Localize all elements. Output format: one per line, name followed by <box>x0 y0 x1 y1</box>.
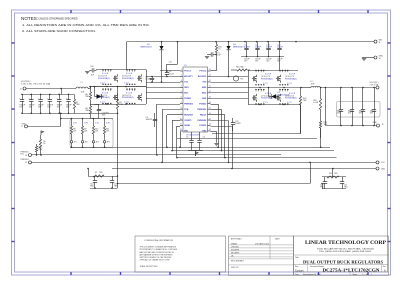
label GND J6 <box>373 122 384 126</box>
svg-text:1: 1 <box>181 69 182 71</box>
junction FAULT join <box>221 150 223 152</box>
wire star stub <box>195 150 197 156</box>
svg-text:J4: J4 <box>20 88 22 90</box>
wire RC2 drop from net <box>310 162 312 183</box>
junction caps top bus <box>58 94 60 96</box>
junction COMP2 join <box>228 162 230 164</box>
svg-text:COMP2: COMP2 <box>199 125 207 127</box>
svg-text:UNLESS OTHERWISE SPECIFIED: UNLESS OTHERWISE SPECIFIED <box>39 17 78 20</box>
wire BG1 <box>146 92 180 94</box>
wire RC1 top node <box>88 176 118 178</box>
capacitor C20 TBD <box>320 177 327 189</box>
junction on VIN bus <box>279 41 281 43</box>
jumper JP4 <box>103 139 109 144</box>
junction right mid <box>259 87 261 89</box>
wire net SGND rail y147 <box>70 147 330 149</box>
capacitor C6 1000PF <box>146 113 158 127</box>
svg-text:7: 7 <box>181 102 182 104</box>
label C2 value below <box>255 59 261 63</box>
wire long x117 drop <box>117 113 119 188</box>
junction R2 bottom <box>117 113 119 115</box>
jumper JP1 <box>70 139 76 144</box>
svg-text:JP4: JP4 <box>107 142 110 144</box>
junction caps lower bus <box>58 113 60 115</box>
junction Q mid 2 <box>106 86 108 88</box>
svg-text:C3: C3 <box>186 137 188 139</box>
svg-text:Rev: Rev <box>383 266 386 268</box>
confidential information box <box>135 236 226 272</box>
svg-text:12: 12 <box>180 129 182 131</box>
junction output caps bottom <box>362 125 364 127</box>
resistor R7 TBD snubber <box>93 172 104 177</box>
junction on VIN bus <box>267 41 269 43</box>
junction Q bot 2 <box>106 103 108 105</box>
resistor R11 10K VID <box>103 119 110 140</box>
transistor Q1 FDS6670A <box>98 69 118 85</box>
junction caps lower bus <box>31 113 33 115</box>
wire R18 drop <box>300 105 302 134</box>
wire R15 chain drop <box>320 128 322 147</box>
label GND J3 <box>379 56 384 61</box>
ground symbol near J3 <box>362 59 366 61</box>
junction on caps lower bus <box>246 56 248 58</box>
capacitor C11 100PF <box>231 118 242 131</box>
resistor R4 TBD <box>85 104 91 119</box>
capacitor C31 180UF output2 <box>348 88 355 126</box>
op-amp U1 LTC1702CGN body <box>183 65 208 137</box>
junction VID bottom <box>82 147 84 149</box>
svg-text:1: 1 <box>371 274 372 276</box>
wire BG2 <box>211 92 249 94</box>
capacitor C15 TBD <box>110 176 118 188</box>
wire FB2 drop <box>232 126 234 169</box>
wire Q mid bus <box>90 86 146 88</box>
svg-text:16: 16 <box>209 113 211 115</box>
svg-text:DUAL OUTPUT BUCK REGULATORS: DUAL OUTPUT BUCK REGULATORS <box>303 259 383 264</box>
label VIN J1 <box>379 40 383 45</box>
wire FB2 pin lead <box>211 126 233 128</box>
svg-text:LINEAR TECHNOLOGY CORP: LINEAR TECHNOLOGY CORP <box>305 240 387 246</box>
junction Q mid <box>125 86 127 88</box>
resistor R20 TBD <box>35 144 42 155</box>
svg-text:PVCC1: PVCC1 <box>184 71 192 73</box>
junction caps top bus <box>40 94 42 96</box>
svg-text:1: 1 <box>362 274 363 276</box>
junction on VIN bus <box>256 41 258 43</box>
wire FCB pin lead <box>162 109 180 111</box>
junction C8 top <box>166 70 168 72</box>
svg-text:VO2: VO2 <box>381 162 385 164</box>
wire net y133 fb right <box>212 133 301 135</box>
junction caps lower bus <box>40 113 42 115</box>
junction Q bot <box>125 103 127 105</box>
wire RC1 left drop <box>88 169 90 177</box>
svg-text:TBD: TBD <box>76 104 80 106</box>
capacitor C21 TBD <box>340 177 348 189</box>
capacitor C14 180UF output <box>19 94 26 113</box>
label VOUT2 <box>370 82 380 87</box>
wire GND riser <box>60 113 62 126</box>
svg-text:MAY NOT BE USED OR REPRODUCED: MAY NOT BE USED OR REPRODUCED IN <box>140 251 175 254</box>
svg-text:19: 19 <box>209 96 211 98</box>
svg-text:Size: Size <box>295 266 298 268</box>
resistor R18 TBD <box>299 88 307 134</box>
junction VID bottom <box>104 147 106 149</box>
junction C8 bottom <box>166 76 168 78</box>
svg-text:TBD: TBD <box>38 149 42 151</box>
svg-text:USED ON: USED ON <box>231 267 239 269</box>
notes heading <box>21 16 78 21</box>
svg-text:TBD: TBD <box>90 186 94 188</box>
diode D1 MBR0530T1A <box>95 87 104 99</box>
resistor R15 1.00K <box>313 88 321 116</box>
wire COMP1 pin lead <box>172 120 180 122</box>
capacitor C1 input bypass <box>244 42 251 57</box>
capacitor C22 input bypass <box>277 42 284 57</box>
terminal J10 right <box>376 161 379 164</box>
diode D4 MBR0530LT1 <box>226 42 230 77</box>
junction FCB join <box>161 162 163 164</box>
svg-text:1000PF: 1000PF <box>146 119 153 121</box>
svg-text:GND: GND <box>381 168 386 170</box>
wire RC2 up tie <box>332 169 334 178</box>
junction RUNSS2 join <box>224 157 226 159</box>
capacitor C14 TBD <box>90 176 97 188</box>
wire RC2 bottom bus <box>322 188 346 190</box>
resistor R19 TBD snubber <box>327 173 339 178</box>
transistor Q3 FDS6670A <box>122 69 142 85</box>
wire VIN drop to cluster <box>126 42 128 70</box>
svg-text:FCB: FCB <box>184 109 189 111</box>
svg-text:PVCC2: PVCC2 <box>199 71 207 73</box>
svg-text:C10: C10 <box>169 61 172 63</box>
junction on VIN bus <box>228 41 230 43</box>
svg-text:J3: J3 <box>379 58 381 60</box>
svg-text:ANY MANNER WITHOUT THE EXPRESS: ANY MANNER WITHOUT THE EXPRESS <box>140 253 174 256</box>
junction output caps bottom <box>373 125 375 127</box>
svg-text:21: 21 <box>209 86 211 88</box>
label C1 value below <box>244 59 250 63</box>
wire L2 to VOUT2 terminal <box>320 87 376 89</box>
svg-text:RUN/SS1: RUN/SS1 <box>184 114 194 116</box>
wire output caps bottom bus <box>325 125 379 127</box>
wire BOOST2 <box>211 76 249 78</box>
junction on caps lower bus <box>279 56 281 58</box>
svg-text:14: 14 <box>209 124 211 126</box>
wire PVCC2 pin to R16 branch <box>211 70 217 72</box>
wire RC2 tie down <box>322 184 324 190</box>
svg-text:FDS6670A(2): FDS6670A(2) <box>285 77 297 80</box>
junction FB2 join <box>231 168 233 170</box>
junction C9 bottom <box>151 81 153 83</box>
transistor Q4 FDS6670A <box>98 88 118 104</box>
svg-text:PH: (408) 432-1900 FAX: (408): PH: (408) 432-1900 FAX: (408) 434-0507 <box>320 250 372 253</box>
wire FB1 pin lead <box>177 126 180 128</box>
junction R15 chain join <box>320 147 322 149</box>
svg-text:FDS6670A(2): FDS6670A(2) <box>261 77 273 80</box>
svg-text:CHECKED: CHECKED <box>231 246 240 248</box>
capacitor C33 180UF output2 <box>370 88 377 126</box>
junction R6 top <box>89 86 91 88</box>
svg-text:100UF: 100UF <box>266 47 273 49</box>
svg-text:RUN/SS2: RUN/SS2 <box>197 120 207 122</box>
svg-text:Sheet: Sheet <box>353 273 358 276</box>
label C3 C4 <box>186 137 205 139</box>
svg-text:Friday, August 18, 2000: Friday, August 18, 2000 <box>303 273 321 276</box>
svg-text:5: 5 <box>181 91 182 93</box>
wire GND stub <box>362 57 374 59</box>
svg-text:C4: C4 <box>203 137 205 139</box>
terminal J7 GND left <box>25 125 28 128</box>
wire net PWRGD2 long <box>32 162 377 164</box>
junction GND riser mid <box>60 118 62 120</box>
junction RC1 bottom <box>94 187 96 189</box>
svg-text:VOUT(PL): VOUT(PL) <box>21 81 31 83</box>
capacitor C9 0.1UF <box>145 77 154 83</box>
junction y183 x117 <box>117 183 119 185</box>
svg-text:PWRGD1: PWRGD1 <box>184 103 194 105</box>
svg-text:1.00K: 1.00K <box>313 102 319 104</box>
junction COMP1 join <box>171 150 173 152</box>
junction D3 to TG1 wire <box>161 81 163 83</box>
wire PGND1 <box>146 98 180 100</box>
wire SGND pin lead <box>180 131 182 133</box>
terminal J5 VOUT2 <box>376 86 379 89</box>
svg-text:1. ALL RESISTORS ARE IN OHMS: 1. ALL RESISTORS ARE IN OHMS AND 1%. ALL… <box>22 24 151 27</box>
transistor Q6 FDS6670A <box>122 88 142 104</box>
wire Q top bus <box>96 69 146 71</box>
junction on VOUT2 bus <box>362 87 364 89</box>
terminal J9 PWRGD2 <box>29 161 32 164</box>
svg-text:GND: GND <box>202 98 207 100</box>
svg-text:Custom: Custom <box>295 269 304 272</box>
svg-text:FAULT: FAULT <box>200 113 207 116</box>
wire FAULT drop <box>221 110 223 151</box>
svg-text:6: 6 <box>181 96 182 98</box>
junction VID bus <box>71 118 73 120</box>
capacitor C7 OPT TBD <box>97 104 110 119</box>
junction VOUT1 tap <box>60 88 62 90</box>
wire RC1 bottom bus <box>90 188 118 190</box>
wire VOUT1 bus <box>26 88 76 90</box>
bead L3 <box>233 76 243 81</box>
junction RC2 net <box>309 162 311 164</box>
resistor R8 10K VID <box>70 119 77 140</box>
label D4 <box>233 44 245 49</box>
svg-text:FDS6670A(2): FDS6670A(2) <box>285 97 297 100</box>
capacitor C16 1UF <box>89 66 96 77</box>
label VOUT1 net <box>21 81 51 86</box>
svg-text:BOOST2: BOOST2 <box>198 76 207 78</box>
junction right bot <box>259 104 261 106</box>
svg-text:NOTES:: NOTES: <box>21 16 38 21</box>
junction output caps bottom <box>351 125 353 127</box>
svg-text:4: 4 <box>181 86 182 88</box>
svg-text:BOOST1: BOOST1 <box>184 76 193 78</box>
wire FB1 drop <box>176 126 178 158</box>
svg-text:8: 8 <box>181 107 182 109</box>
svg-text:100PF: 100PF <box>235 123 241 125</box>
wire TG1 <box>146 82 180 84</box>
junction right bot2 <box>283 104 285 106</box>
svg-text:J7: J7 <box>21 126 23 128</box>
svg-text:MBR0530LT1: MBR0530LT1 <box>233 46 245 48</box>
resistor R13 TBD <box>231 67 250 72</box>
svg-text:17: 17 <box>209 107 211 109</box>
wire output caps lower bus left <box>22 113 118 115</box>
svg-text:TP1: TP1 <box>240 79 243 81</box>
junction FB1 join <box>176 157 178 159</box>
junction RC1 bottom2 <box>111 187 113 189</box>
wire TG2 <box>211 82 249 84</box>
svg-text:JP3: JP3 <box>96 142 99 144</box>
junction VID bus <box>93 118 95 120</box>
svg-text:2: 2 <box>181 75 182 77</box>
svg-text:TBD: TBD <box>85 96 89 98</box>
wire right cluster bottom bus <box>248 104 301 106</box>
wire R6 bottom tee <box>90 104 99 106</box>
junction D2 anode <box>268 87 270 89</box>
svg-text:FDS6670A(2): FDS6670A(2) <box>98 96 110 99</box>
wire cluster to L2 <box>301 87 311 89</box>
junction PWRGD2 join <box>217 147 219 149</box>
wire output bus left tie <box>325 88 327 126</box>
label PWRGD1 <box>21 151 29 155</box>
capacitor C30 180UF output2 <box>337 88 344 126</box>
junction on VOUT2 bus <box>351 87 353 89</box>
svg-text:PWRGD2: PWRGD2 <box>21 159 29 161</box>
resistor R16 10 <box>215 42 221 55</box>
star SGND under IC <box>196 152 199 156</box>
junction caps lower bus <box>49 113 51 115</box>
wire Q2 top bus right <box>248 70 298 72</box>
svg-text:SGND: SGND <box>184 125 190 127</box>
junction on VOUT2 bus <box>373 87 375 89</box>
capacitor C3 1000PF <box>189 132 193 150</box>
wire PVCC1 <box>160 70 180 72</box>
junction on VIN bus <box>177 41 179 43</box>
wire RC2 top node <box>322 176 346 178</box>
svg-text:15: 15 <box>209 118 211 120</box>
terminal J1 VIN <box>374 40 377 43</box>
wire switch node jog <box>90 87 92 89</box>
capacitor C5 10UF <box>206 52 222 57</box>
diode D2 MBR0530T1A <box>269 88 291 99</box>
capacitor C16 180UF output <box>38 94 45 113</box>
size document rev headers <box>295 265 386 268</box>
wire right cluster mid bus <box>211 87 302 89</box>
svg-text:PROPRIETARY TO LINEAR TECH. CO: PROPRIETARY TO LINEAR TECH. CORP. AND <box>140 248 178 251</box>
resistor R2 TBD <box>116 87 123 114</box>
wire Q bottom bus <box>95 104 147 106</box>
junction caps lower bus <box>68 113 70 115</box>
svg-text:MBR0530T1A: MBR0530T1A <box>278 93 291 96</box>
svg-text:THIS DOCUMENT CONTAINS INFORMA: THIS DOCUMENT CONTAINS INFORMATION <box>140 246 177 249</box>
junction VID bus <box>104 118 106 120</box>
wire GND lead <box>28 126 61 128</box>
wire GND to VID bus <box>61 118 113 120</box>
junction right mid2 <box>283 87 285 89</box>
wire caps top bus left <box>22 94 74 96</box>
label PWRGD2 <box>21 159 29 161</box>
wire net PWRGD1 long <box>32 154 282 156</box>
svg-text:C16: C16 <box>90 66 93 68</box>
junction SGND join <box>179 147 181 149</box>
star SGND at R5 <box>41 131 44 135</box>
wire RUNSS2 pin lead <box>211 114 226 116</box>
capacitor C17 180UF output <box>47 94 54 113</box>
svg-text:18: 18 <box>209 102 211 104</box>
svg-text:22: 22 <box>209 80 211 82</box>
junction R2 top <box>117 86 119 88</box>
svg-text:GND: GND <box>373 122 378 124</box>
svg-text:DATE: DATE <box>275 238 280 241</box>
svg-text:0.1UF: 0.1UF <box>169 73 175 75</box>
svg-text:JP2: JP2 <box>85 142 88 144</box>
svg-text:J1: J1 <box>379 42 381 44</box>
approvals table <box>229 236 294 275</box>
resistor R6 TBD <box>85 87 91 105</box>
wire PWRGD1 pin lead <box>157 104 180 106</box>
wire net y150 <box>172 150 334 152</box>
junction x117 y176 <box>117 175 119 177</box>
junction on VIN bus <box>215 41 217 43</box>
capacitor group box output <box>337 101 381 117</box>
capacitor C4 0.1UF <box>197 132 201 150</box>
U1 right pins with numbers and names <box>197 69 210 132</box>
wire top caps lower bus <box>241 56 284 58</box>
U1 left pins with numbers and names <box>180 69 194 132</box>
ground symbol below IC right <box>214 144 218 146</box>
wire COMP2 drop <box>228 121 230 163</box>
svg-text:GND: GND <box>22 123 27 125</box>
wire RUN/SS1 pin lead <box>167 114 180 116</box>
svg-text:10: 10 <box>180 118 182 120</box>
svg-text:R7: R7 <box>95 172 97 174</box>
junction PWRGD1 join <box>156 154 158 156</box>
title address <box>317 248 374 254</box>
svg-text:DC275A-1*LTC1702CGN: DC275A-1*LTC1702CGN <box>323 267 381 272</box>
wire SGND drop <box>180 132 182 148</box>
junction on caps lower bus <box>268 56 270 58</box>
svg-text:APPROVALS: APPROVALS <box>231 238 243 241</box>
junction RC1 tap <box>87 168 89 170</box>
svg-text:FDS6670A(2): FDS6670A(2) <box>98 77 110 80</box>
junction caps top bus <box>68 94 70 96</box>
transistor Q7 FDS6670A <box>252 89 273 105</box>
junction caps top bus <box>31 94 33 96</box>
wire top bus drop to PVCC1 <box>177 42 179 64</box>
junction caps lower bus <box>21 113 23 115</box>
svg-text:TBD: TBD <box>102 115 106 117</box>
junction on VOUT2 bus <box>340 87 342 89</box>
wire caps bank tap <box>61 89 63 95</box>
junction RC2 tie <box>321 183 323 185</box>
wire RUN/SS1 drop <box>166 115 168 147</box>
wire Q right tie <box>146 70 148 105</box>
label C10 <box>169 61 172 63</box>
title block <box>294 236 389 275</box>
wire PVCC1 riser h <box>167 64 178 66</box>
svg-text:J8: J8 <box>25 155 27 157</box>
capacitor C32 180UF output2 <box>359 88 366 126</box>
svg-text:R13 TBD: R13 TBD <box>236 67 244 69</box>
svg-text:20: 20 <box>209 91 211 93</box>
svg-text:OFFICIALS OF LINEAR TECH. CORP: OFFICIALS OF LINEAR TECH. CORP. <box>140 259 171 262</box>
resistor R19 TBD <box>319 115 328 138</box>
jumper JP2 <box>81 139 87 144</box>
ground symbol at C5 <box>205 57 209 59</box>
